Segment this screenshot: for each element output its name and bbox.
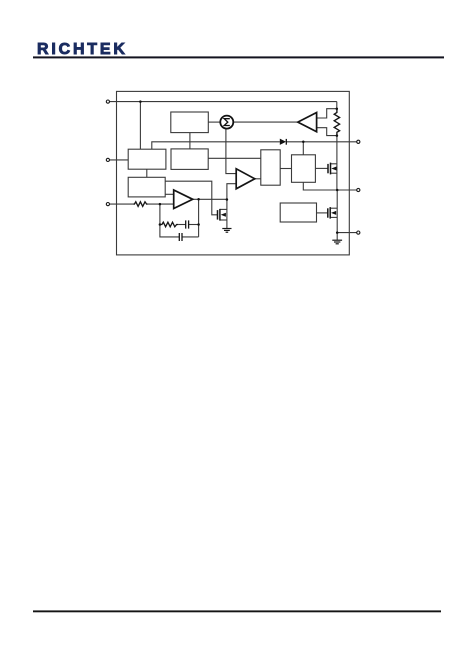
- box2: [171, 149, 208, 170]
- pin 4 terminal: [357, 140, 360, 143]
- wire: box3 to error amp plus input: [165, 193, 174, 195]
- resistor R1 (horizontal zigzag): [133, 202, 147, 207]
- oscillator box: [171, 112, 209, 133]
- resistor R2 (compensation zigzag): [160, 222, 178, 227]
- wire: C1 to node: [189, 224, 199, 226]
- wire: M2 drain up to node: [226, 200, 228, 229]
- wire: pin2 to box1: [109, 159, 128, 161]
- wire: box5 bottom to SW rail and pin5: [303, 182, 357, 190]
- wire: M1 source stub: [331, 172, 337, 174]
- mosfet M2 clamp: [218, 209, 226, 221]
- wire: top rail drop to sense resistor top: [336, 102, 338, 109]
- box3: [128, 177, 165, 197]
- wire: box1 up and internal rail to diode: [152, 142, 280, 149]
- wire: top rail from pin1: [109, 101, 336, 103]
- wire: R2 to C1: [178, 224, 185, 226]
- block diagram border: [117, 91, 350, 255]
- mosfet M3 low side: [328, 207, 336, 219]
- wire: R1 to error amp minus input: [148, 203, 174, 205]
- wire: right branch vertical: [198, 199, 200, 237]
- wire: osc box to sigma: [208, 121, 220, 123]
- capacitor C1: [186, 220, 189, 228]
- junction: top rail to box1: [139, 100, 142, 103]
- wire: box4 to box5: [280, 168, 291, 170]
- wire: pwm comparator output to box4: [255, 178, 261, 180]
- wire: box3 to M2 gate: [165, 181, 217, 215]
- wire: box2 to box4: [208, 157, 261, 159]
- wire: M2 drain stub: [220, 208, 227, 210]
- pwm comparator: [236, 169, 255, 189]
- junction: diode rail to box5: [302, 141, 305, 144]
- pin 5 terminal: [357, 188, 360, 191]
- box4: [261, 150, 280, 185]
- wire: box1 to box3: [146, 169, 148, 177]
- wire: sense amp plus input stub: [317, 109, 337, 118]
- junction: FB node: [159, 203, 162, 206]
- summing node sigma: [220, 116, 233, 129]
- svg-text:RICHTEK: RICHTEK: [37, 41, 128, 58]
- wire: SW junction through M3 to ground junction: [336, 190, 338, 233]
- ground symbol at pin6: [332, 240, 342, 244]
- header rule: [33, 56, 444, 58]
- wire: pin3 to feedback resistor R1: [109, 203, 133, 205]
- wire: error amp output: [193, 198, 227, 200]
- wire: box6 to M3 gate: [317, 212, 328, 214]
- current sense amp (left pointing): [298, 113, 317, 132]
- junction: ground rail: [336, 231, 339, 234]
- sense resistor (vertical zigzag): [334, 109, 339, 136]
- wire: M3 drain stub: [330, 207, 337, 209]
- wire: rail drop to box5: [302, 142, 304, 155]
- error amp EA: [174, 190, 193, 209]
- box5: [292, 155, 316, 183]
- mosfet M1 high side: [328, 163, 337, 175]
- wire: ground junction down to ground symbol: [336, 233, 338, 240]
- wire: M2 source stub: [220, 219, 227, 221]
- capacitor C2: [179, 233, 182, 241]
- pin 2 terminal: [106, 158, 109, 161]
- wire: compensation C2 to right branch: [182, 236, 199, 238]
- wire: box5 to M1 gate: [315, 167, 328, 169]
- junction: compensation right node: [197, 223, 200, 226]
- pin 1 terminal: [106, 100, 109, 103]
- wire: sense resistor bottom to M1 to SW junction: [336, 136, 338, 190]
- pin 3 terminal: [106, 203, 109, 206]
- junction: sense resistor bottom: [336, 134, 339, 137]
- junction: sense resistor top: [336, 107, 339, 110]
- box1: [128, 149, 166, 169]
- wire: ground junction to pin6: [337, 232, 357, 234]
- diode D1: [280, 139, 287, 145]
- junction: M2 drain node: [226, 198, 229, 201]
- wire: M1 drain stub: [331, 163, 337, 165]
- wire: diode cathode rail to pin4: [286, 141, 356, 143]
- wire: feedback left branch down: [160, 204, 179, 237]
- wire: M3 source stub: [330, 216, 337, 218]
- wire: rail drop to box1: [139, 102, 141, 150]
- footer rule: [33, 610, 441, 612]
- box6: [280, 203, 316, 222]
- wire: sigma to sense amp output: [234, 121, 298, 123]
- wire: sigma down to pwm comparator plus input: [226, 129, 236, 174]
- junction: error amp output node: [197, 198, 200, 201]
- junction: SW rail: [336, 189, 339, 192]
- wire: sense amp minus input stub: [317, 128, 337, 136]
- ground symbol at M2 source: [222, 229, 231, 233]
- junction: compensation left node: [159, 223, 162, 226]
- wire: node up to pwm comparator minus input: [227, 184, 236, 200]
- pin 6 terminal: [357, 231, 360, 234]
- wire: osc box down to box2: [189, 133, 191, 149]
